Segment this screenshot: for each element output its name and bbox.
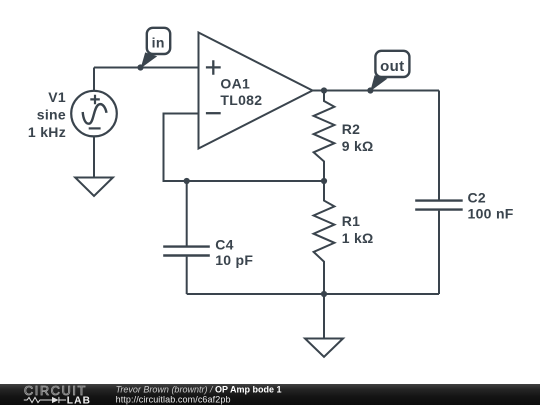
node out label junction dot <box>367 87 373 93</box>
svg-text:LAB: LAB <box>67 395 91 405</box>
svg-text:Trevor Brown (browntr) / OP Am: Trevor Brown (browntr) / OP Amp bode 1 <box>116 385 282 395</box>
ground (below V1) <box>75 178 113 197</box>
svg-text:out: out <box>380 58 404 75</box>
svg-text:9 kΩ: 9 kΩ <box>342 138 374 154</box>
capacitor C4 top stem <box>186 181 188 246</box>
node out label tail <box>370 75 387 91</box>
wire bottom rail <box>187 293 439 295</box>
wire inverting input feedback (left and down) <box>164 114 325 182</box>
wire V1 top stem <box>93 68 95 91</box>
wire C4 bottom stem <box>186 257 188 294</box>
V1 minus mark <box>89 127 101 129</box>
svg-text:C4: C4 <box>215 237 234 253</box>
resistor R1 <box>314 181 335 294</box>
V1 sine symbol <box>83 104 107 124</box>
node in label tail <box>141 52 158 68</box>
svg-text:OA1: OA1 <box>220 76 250 92</box>
svg-text:V1: V1 <box>48 89 66 105</box>
svg-text:100 nF: 100 nF <box>468 206 514 222</box>
svg-text:sine: sine <box>37 107 66 123</box>
resistor R2 <box>314 91 335 182</box>
node feedback junction dot at R2/R1 <box>321 178 327 184</box>
logo resistor-diode glyph <box>24 397 66 403</box>
wire ground stem bottom <box>323 294 325 339</box>
node bottom junction dot <box>321 291 327 297</box>
node out label flag box <box>375 51 409 77</box>
svg-text:10 pF: 10 pF <box>215 252 253 268</box>
wire C2 bottom stem <box>438 211 440 294</box>
svg-text:http://circuitlab.com/c6af2pb: http://circuitlab.com/c6af2pb <box>116 395 231 405</box>
wire V1 bottom stem <box>93 136 95 177</box>
svg-text:TL082: TL082 <box>220 92 262 108</box>
wire right rail down to C2 <box>438 91 440 201</box>
V1 plus mark <box>90 95 100 105</box>
svg-text:R1: R1 <box>342 213 361 229</box>
svg-text:1 kHz: 1 kHz <box>28 124 66 140</box>
svg-text:C2: C2 <box>468 190 487 206</box>
capacitor C4 plates <box>163 247 210 256</box>
svg-text:R2: R2 <box>342 121 361 137</box>
op-amp plus input mark <box>206 60 221 75</box>
node in junction dot <box>137 64 143 70</box>
op-amp OA1 triangle <box>199 33 313 149</box>
svg-text:in: in <box>152 35 165 51</box>
svg-text:1 kΩ: 1 kΩ <box>342 230 374 246</box>
op-amp minus input mark <box>206 112 221 114</box>
ground (bottom) <box>305 339 343 357</box>
wire op-amp output rail <box>313 90 440 92</box>
wire top rail (V1 top to op-amp + input) <box>94 67 199 69</box>
node in label flag box <box>147 28 170 54</box>
capacitor C2 plates <box>415 201 463 210</box>
node feedback junction dot at C4 <box>184 178 190 184</box>
node output junction dot at R2 <box>321 87 327 93</box>
voltage source V1 circle <box>71 91 117 137</box>
